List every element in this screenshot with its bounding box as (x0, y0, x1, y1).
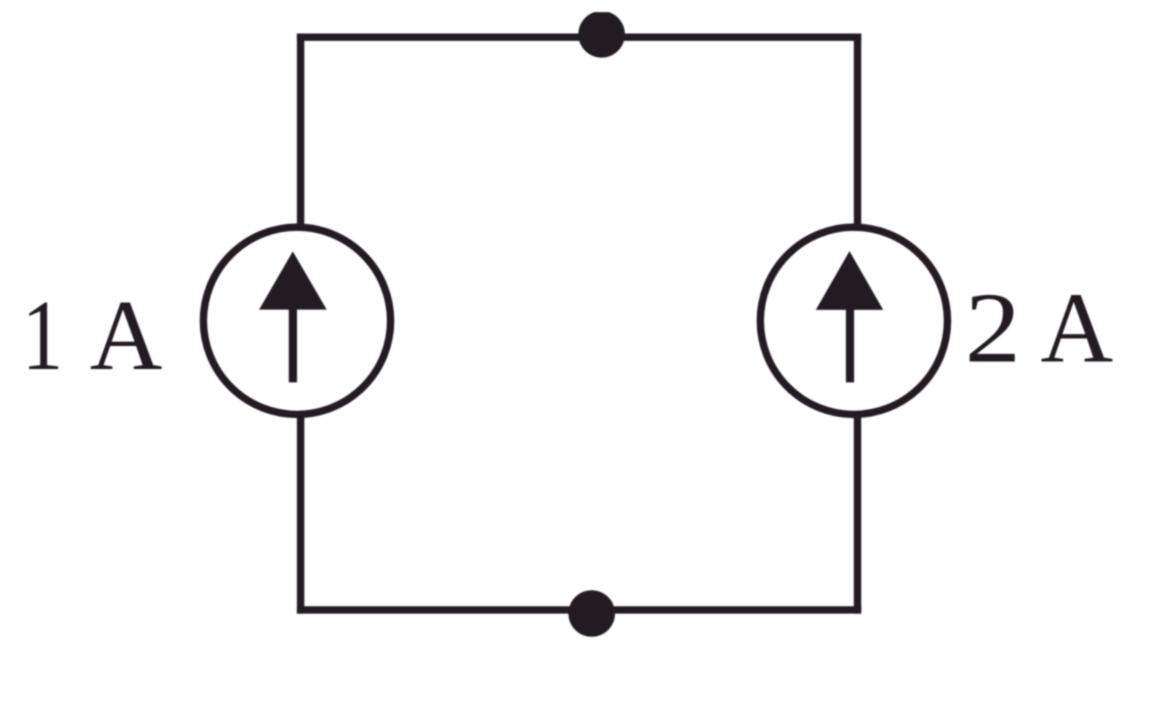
current source I1 arrow (259, 251, 327, 382)
current source I2 arrow (816, 251, 883, 382)
node dot bottom (568, 590, 615, 637)
svg-text:2: 2 (965, 273, 1021, 384)
wire right vertical upper (854, 34, 861, 232)
wire left vertical lower (297, 411, 304, 614)
wire right vertical lower (854, 411, 861, 614)
svg-text:A: A (90, 279, 163, 391)
svg-text:1: 1 (22, 279, 63, 391)
current source I2 circle (760, 227, 947, 414)
current source I1 circle (203, 227, 390, 414)
wire bottom horizontal (297, 606, 861, 613)
wire top horizontal (297, 34, 861, 41)
node dot top (578, 11, 625, 58)
svg-text:A: A (1041, 271, 1114, 383)
wire left vertical upper (297, 34, 304, 232)
